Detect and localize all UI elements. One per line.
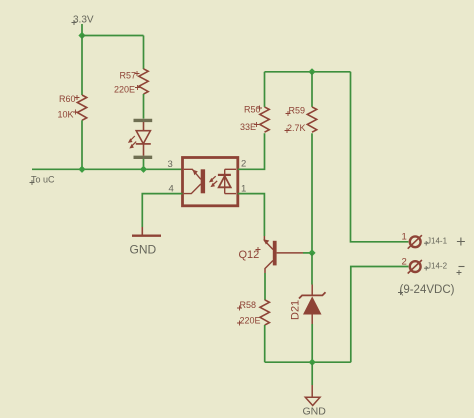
opto LED top stub <box>225 168 236 170</box>
pin 4 label <box>169 184 174 195</box>
wire supply stub <box>81 24 83 36</box>
label R59 <box>289 106 306 116</box>
wire left rail lower <box>81 120 83 169</box>
transistor Q12 base bar <box>273 241 277 266</box>
label GND left <box>130 243 157 257</box>
label 220E <box>114 85 135 95</box>
label R58 <box>240 300 257 310</box>
ground GND lead bottom <box>311 385 313 397</box>
wire To uC horizontal <box>32 168 183 170</box>
svg-text:220E: 220E <box>240 316 261 326</box>
LED pad bar bottom <box>134 156 153 159</box>
svg-text:R59: R59 <box>289 106 306 116</box>
svg-text:J14-2: J14-2 <box>427 262 448 271</box>
label R58 origin cross <box>237 306 242 311</box>
node junction bottom rail <box>309 359 316 366</box>
svg-text:10K: 10K <box>58 109 74 119</box>
opto phototransistor emitter arrow <box>193 170 198 176</box>
label R57 origin cross <box>135 71 140 76</box>
wire right rail to terminal 1 <box>351 72 409 242</box>
transistor Q12 emitter arrow <box>263 239 269 244</box>
wire pin2 to R50 <box>238 133 265 169</box>
transistor Q12 emitter lead <box>264 236 273 250</box>
label J14-1 <box>427 237 448 246</box>
zener D21 cathode bar <box>299 292 326 298</box>
LED emission arrows <box>128 136 136 149</box>
svg-text:R60: R60 <box>59 94 76 104</box>
label R50 <box>244 105 261 115</box>
opto light arrow 2 <box>210 181 217 187</box>
zener D21 cathode lead <box>311 285 313 296</box>
opto phototransistor base bar <box>201 169 205 193</box>
wire R58 to rail <box>264 325 266 362</box>
polarity plus <box>457 238 465 246</box>
svg-text:R58: R58 <box>240 300 257 310</box>
wire base to node <box>303 252 312 254</box>
wire collector to R58 <box>264 273 266 300</box>
wire left rail upper <box>81 36 83 96</box>
label R50 origin cross <box>257 106 262 111</box>
LED diode triangle <box>136 131 150 144</box>
label J14-2 origin cross <box>424 266 429 271</box>
label 33E origin cross <box>254 122 259 127</box>
label 220E origin cross <box>135 85 140 90</box>
node junction 3.3V <box>78 32 85 39</box>
resistor R60 <box>77 95 86 120</box>
wire R50 top to rail <box>264 72 266 107</box>
pin 1 label <box>241 184 246 195</box>
label 220E lower origin cross <box>237 321 242 326</box>
wire zener to rail <box>311 324 313 362</box>
supply 3.3V label <box>73 15 94 26</box>
wire middle rail lower <box>311 133 313 253</box>
optocoupler box <box>183 158 238 206</box>
svg-text:2: 2 <box>402 257 407 268</box>
LED cathode lead <box>143 144 145 156</box>
transistor Q12 base lead <box>277 252 303 254</box>
pin 3 label <box>168 159 173 170</box>
label 2 terminal <box>402 257 407 268</box>
svg-text:GND: GND <box>130 243 157 257</box>
ground GND triangle bottom <box>305 397 320 405</box>
label D21 <box>290 300 302 320</box>
LED pad bar top <box>134 119 153 122</box>
wire pin1 to Q12 emitter <box>238 194 265 236</box>
resistor R59 <box>307 107 316 132</box>
opto light arrow 1 <box>209 176 216 182</box>
label 9-24VDC <box>400 284 455 296</box>
svg-text:GND: GND <box>303 406 327 418</box>
polarity minus <box>457 267 465 276</box>
ground GND bar left <box>132 234 161 236</box>
svg-text:D21: D21 <box>290 300 302 320</box>
wire middle rail upper <box>311 72 313 107</box>
node junction left rail <box>78 166 85 173</box>
opto LED triangle <box>219 176 231 187</box>
pin 2 label <box>241 159 246 170</box>
wire 3.3V horizontal <box>82 35 144 37</box>
wire zener feed <box>311 253 313 285</box>
label Q12 <box>239 249 260 261</box>
label 9-24VDC origin cross <box>398 290 403 295</box>
opto LED bottom stub <box>225 193 236 195</box>
label J14-1 origin cross <box>424 241 429 246</box>
terminal J14-1 circle <box>408 235 422 249</box>
svg-text:Q12: Q12 <box>239 249 260 261</box>
svg-text:(9-24VDC): (9-24VDC) <box>400 284 455 296</box>
zener D21 triangle <box>303 296 322 314</box>
LED cathode bar <box>136 143 151 145</box>
wire top right rail <box>265 71 351 73</box>
resistor R58 <box>260 300 269 325</box>
node junction LED rail <box>140 166 147 173</box>
svg-text:To uC: To uC <box>31 175 55 185</box>
label To uC <box>31 175 55 185</box>
opto LED vertical lead <box>224 169 226 193</box>
svg-text:R57: R57 <box>120 70 137 80</box>
label GND bottom <box>303 406 327 418</box>
svg-text:33E: 33E <box>240 122 256 132</box>
ground GND lead left <box>141 227 143 235</box>
LED D anode lead <box>143 122 145 131</box>
supply origin cross <box>72 20 77 25</box>
wire LED rail middle <box>143 94 145 119</box>
wire LED rail bottom <box>143 159 145 169</box>
zener D21 anode lead <box>311 315 313 325</box>
svg-text:2.7K: 2.7K <box>287 123 306 133</box>
label 10K <box>58 109 74 119</box>
wire LED rail upper <box>143 36 145 70</box>
label 33E <box>240 122 256 132</box>
label 2.7K <box>287 123 306 133</box>
svg-text:2: 2 <box>241 159 246 170</box>
svg-text:3.3V: 3.3V <box>73 15 94 26</box>
svg-text:R50: R50 <box>244 105 261 115</box>
svg-text:220E: 220E <box>114 85 135 95</box>
label R60 origin cross <box>75 95 80 100</box>
wire pin4 to GND <box>142 194 182 227</box>
wire terminal 2 vertical <box>351 267 409 363</box>
label 220E lower <box>240 316 261 326</box>
label To uC origin cross <box>30 180 35 185</box>
wire bottom rail <box>265 361 351 363</box>
opto LED cathode bar <box>218 174 231 176</box>
wire GND stub bottom <box>311 362 313 385</box>
label R57 <box>120 70 137 80</box>
opto phototransistor emitter stub pin3 <box>184 169 201 179</box>
svg-text:1: 1 <box>402 232 407 243</box>
opto phototransistor collector stub pin4 <box>184 184 201 194</box>
resistor R50 <box>260 107 269 132</box>
resistor R57 <box>139 69 148 94</box>
node junction top rail <box>308 68 315 75</box>
node junction base <box>308 249 315 256</box>
label 1 terminal <box>402 232 407 243</box>
label R59 origin cross <box>286 111 291 116</box>
label R60 <box>59 94 76 104</box>
svg-text:3: 3 <box>168 159 173 170</box>
transistor Q12 collector lead <box>265 261 273 274</box>
label J14-2 <box>427 262 448 271</box>
label 10K origin cross <box>73 110 78 115</box>
label 2.7K origin cross <box>285 128 290 133</box>
terminal J14-2 circle <box>408 260 422 274</box>
label Q12 origin cross <box>256 247 261 252</box>
svg-text:J14-1: J14-1 <box>427 237 448 246</box>
